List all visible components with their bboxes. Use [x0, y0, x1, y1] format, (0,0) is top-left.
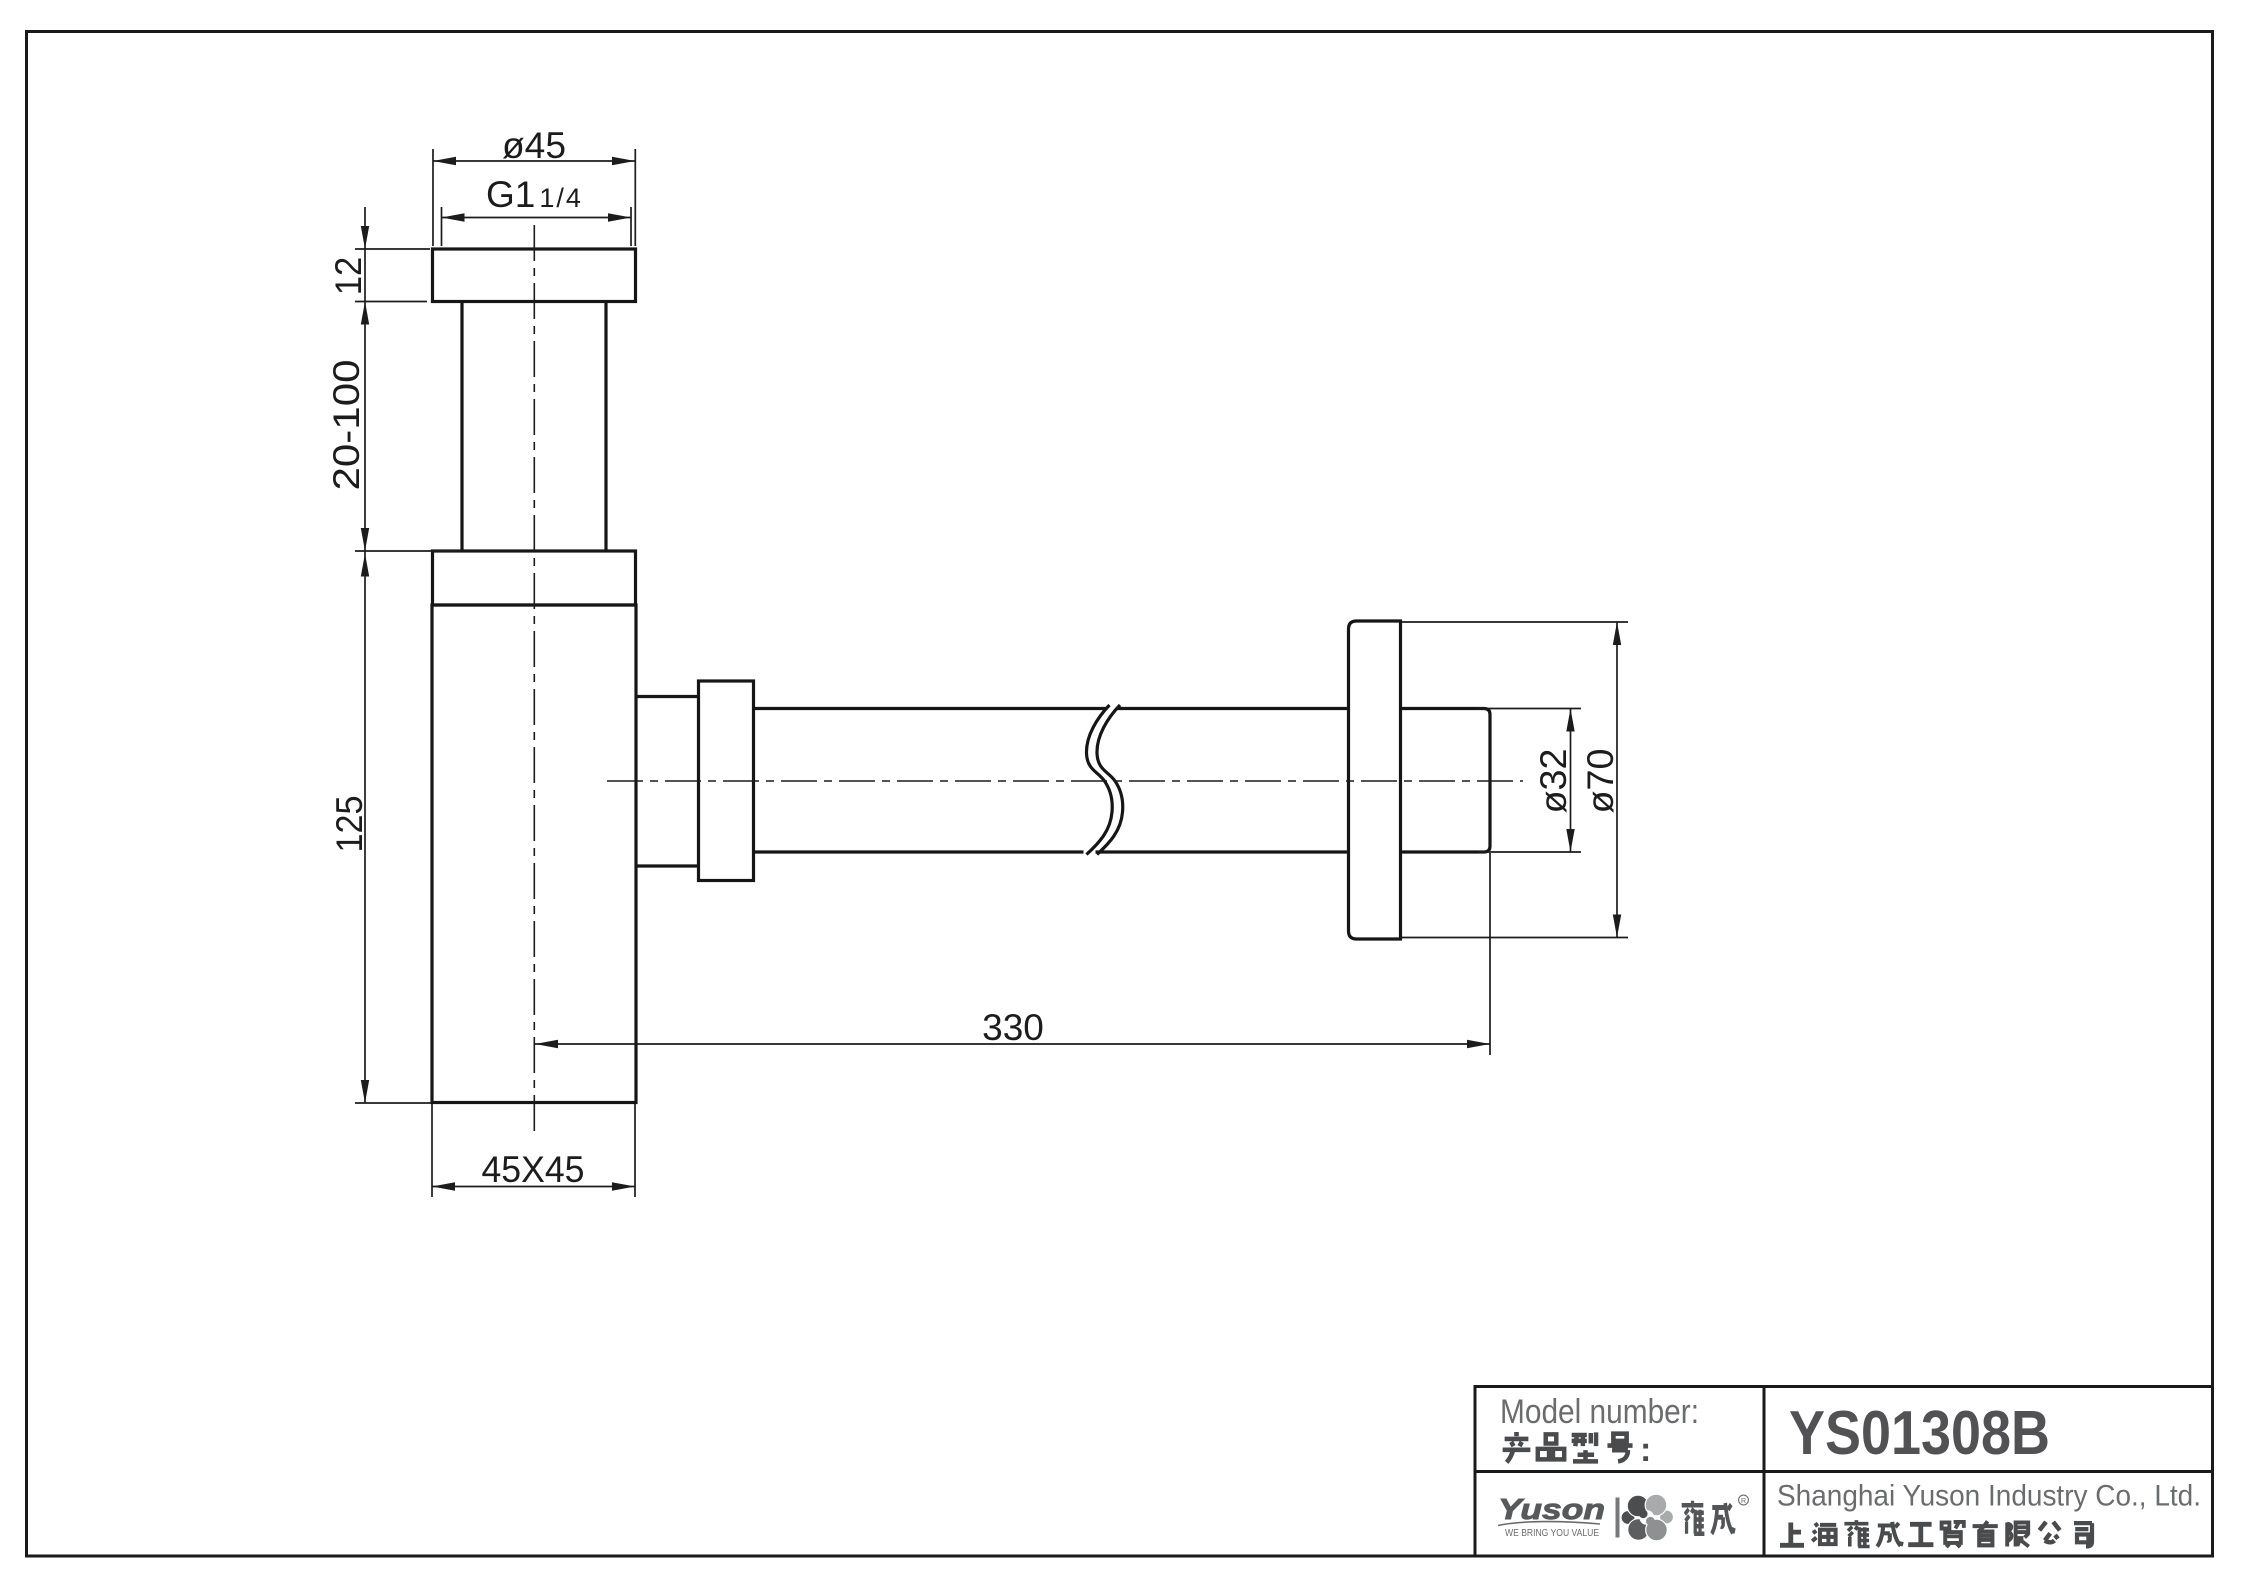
- svg-text:Model number:: Model number:: [1500, 1393, 1699, 1431]
- svg-text:YS01308B: YS01308B: [1789, 1399, 2050, 1468]
- svg-text:125: 125: [329, 796, 370, 853]
- svg-text:20-100: 20-100: [326, 360, 367, 491]
- svg-text:R: R: [1741, 1498, 1746, 1505]
- svg-text:Shanghai Yuson Industry Co., L: Shanghai Yuson Industry Co., Ltd.: [1777, 1480, 2201, 1513]
- svg-text:G11/4: G11/4: [486, 174, 583, 215]
- svg-text:ø32: ø32: [1533, 749, 1574, 814]
- svg-text:WE BRING YOU VALUE: WE BRING YOU VALUE: [1505, 1527, 1599, 1539]
- svg-text:330: 330: [982, 1007, 1044, 1048]
- svg-text:12: 12: [328, 257, 369, 296]
- svg-text:45X45: 45X45: [482, 1149, 585, 1190]
- svg-text:ø45: ø45: [502, 125, 566, 166]
- svg-text:ø70: ø70: [1580, 749, 1621, 814]
- svg-text::: :: [1640, 1431, 1651, 1469]
